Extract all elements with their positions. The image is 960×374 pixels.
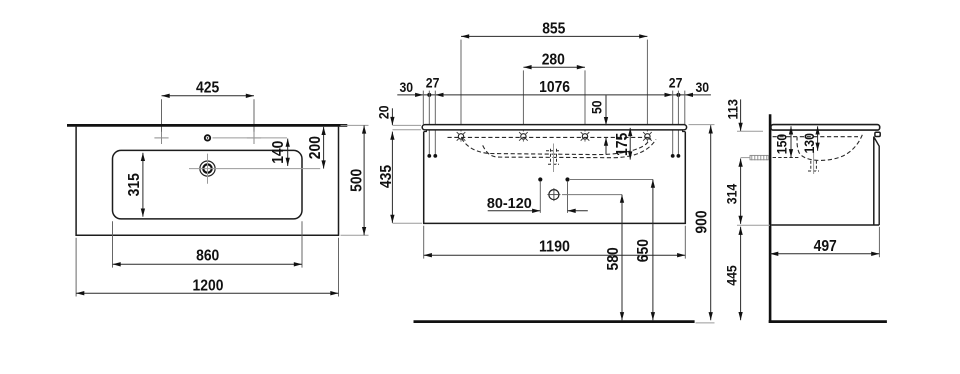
extension 80-120 left <box>539 182 541 213</box>
drawer front top knob (side view) <box>875 132 880 136</box>
drain vertical centre line <box>207 154 209 184</box>
tick 900 top <box>689 124 715 126</box>
svg-text:30: 30 <box>696 80 710 96</box>
svg-text:1200: 1200 <box>193 278 224 295</box>
extension 1200 right <box>338 238 340 297</box>
dot end right a <box>671 154 675 158</box>
extension/centre line tap 4 <box>646 40 648 132</box>
wall line (side view) <box>769 114 772 323</box>
dimension 20 (ceramic thickness) <box>391 108 393 125</box>
left tap hole centre cross <box>154 137 168 139</box>
right tap hole centre cross <box>247 137 261 139</box>
ceramic slab (side view) <box>771 125 880 131</box>
tick ceramic top <box>393 124 422 126</box>
svg-text:900: 900 <box>694 210 711 233</box>
dimension 280 (inner tap holes spacing) <box>523 66 585 68</box>
dimension 80-120 (outlet range) <box>488 210 541 212</box>
dimension 200 (drain from back) <box>323 127 325 169</box>
extension 1200 left <box>75 238 77 297</box>
drain outer circle <box>200 161 215 176</box>
water supply connection right <box>565 177 569 181</box>
extension chain left inner <box>434 91 436 155</box>
hidden drain fitting (front view, dashed) <box>550 149 552 164</box>
floor line (side view) <box>769 320 887 323</box>
extension/centre line tap 1 <box>460 40 462 132</box>
svg-text:314: 314 <box>724 184 740 204</box>
tick cabinet bottom left <box>393 222 423 224</box>
waste pipe stub in wall (hatched) <box>750 155 769 159</box>
connector supply to 650 dim <box>570 179 653 181</box>
svg-text:150: 150 <box>774 134 790 154</box>
hidden bowl profile outer (dashed) <box>483 139 656 157</box>
dimension 900 (top height) <box>710 125 712 320</box>
tick ceramic bottom <box>393 129 422 131</box>
svg-text:315: 315 <box>126 173 143 196</box>
dimension 855 (outer tap holes spacing) <box>461 35 647 37</box>
hidden rim line (side view) <box>773 136 858 138</box>
svg-text:280: 280 <box>542 52 565 69</box>
drain inner circle <box>203 164 211 172</box>
ceramic washbasin slab (front view) <box>422 125 686 130</box>
hidden bowl profile (side view) <box>797 135 862 161</box>
dimension 435 (cabinet height) <box>391 132 393 223</box>
dimension 130 (bowl depth side) <box>817 126 819 151</box>
cabinet side outline <box>771 137 879 226</box>
extension 1190 left <box>423 226 425 259</box>
svg-text:80-120: 80-120 <box>487 195 532 212</box>
extension 80-120 right <box>567 182 569 213</box>
dimension 860 (bowl width) <box>113 263 303 265</box>
tap hole symbol 2 (front view) <box>521 134 526 139</box>
svg-text:50: 50 <box>590 100 606 114</box>
svg-text:425: 425 <box>196 79 219 96</box>
drain centre line (side view) <box>813 152 815 174</box>
svg-text:580: 580 <box>605 247 622 270</box>
hidden waste pipe line <box>773 157 800 159</box>
extension/centre line tap 2 <box>522 70 524 131</box>
dimension 314 (pipe to cabinet bottom) <box>740 159 742 224</box>
svg-text:27: 27 <box>669 76 683 92</box>
centre tap hole <box>205 135 210 140</box>
svg-text:175: 175 <box>614 133 631 156</box>
hidden drain fitting (side view, dashed) <box>810 161 812 171</box>
chain dimension 30-27-1076-27-30 <box>397 94 711 96</box>
svg-text:113: 113 <box>726 99 742 119</box>
dimension 315 (basin length) <box>142 153 144 217</box>
dimension 650 (supply height) <box>652 180 654 321</box>
hidden basin rim line (dashed) <box>448 136 652 138</box>
extension chain right inner <box>672 91 674 155</box>
cabinet top step right <box>683 130 686 132</box>
tick 500 top <box>341 124 369 126</box>
drain centre line (front view) <box>553 144 555 173</box>
tick 113 bottom <box>737 130 763 132</box>
svg-text:445: 445 <box>724 265 740 285</box>
extension 497 right <box>878 227 880 257</box>
svg-text:497: 497 <box>814 238 837 255</box>
cabinet top step left <box>424 130 427 132</box>
tap hole symbol 1 (front view) <box>458 134 463 139</box>
svg-text:650: 650 <box>635 239 652 262</box>
dimension 50 (rim below top) <box>605 95 607 125</box>
dimension 1200 (overall width) <box>76 292 338 294</box>
washbasin outline (top view) <box>76 127 338 236</box>
tick 500 bottom <box>341 234 369 236</box>
tap hole symbol 3 (front view) <box>582 134 587 139</box>
svg-text:200: 200 <box>307 136 324 159</box>
extension 860 left <box>112 221 114 267</box>
extension chain far left <box>422 91 424 125</box>
extension chain left dot line <box>428 91 430 155</box>
svg-text:130: 130 <box>802 133 818 153</box>
extension line left tap centre <box>161 99 163 133</box>
extension chain right dot line <box>677 91 679 155</box>
dimension 500 (overall depth) <box>363 125 365 235</box>
dimension 113 (rim to tap deck) <box>740 99 742 131</box>
svg-text:1190: 1190 <box>539 239 570 256</box>
basin inner bowl outline <box>113 150 303 219</box>
dimension 1190 (cabinet width) <box>424 254 686 256</box>
dimension 497 (cabinet depth) <box>770 253 879 255</box>
dimension 140 (drain offset) <box>287 139 289 166</box>
tick cabinet bottom (side) <box>737 224 770 226</box>
svg-text:860: 860 <box>196 248 219 265</box>
svg-text:140: 140 <box>270 140 287 163</box>
svg-text:435: 435 <box>378 165 395 188</box>
svg-text:1076: 1076 <box>539 79 570 96</box>
dot 27 left <box>427 93 431 97</box>
extension line right tap centre <box>253 99 255 133</box>
extension chain far right <box>684 91 686 125</box>
water supply connection left <box>538 177 542 181</box>
svg-text:30: 30 <box>400 80 414 96</box>
centre line tap holes <box>213 137 288 139</box>
vanity cabinet front outline <box>424 132 686 224</box>
floor line (front view) <box>414 320 695 323</box>
tap hole symbol 4 (front view) <box>645 134 650 139</box>
dimension 150 (drain depth) <box>790 126 792 157</box>
connector siphon to 580 dim <box>562 194 622 196</box>
dot end left a <box>427 154 431 158</box>
dot end left b <box>433 154 437 158</box>
tick 900 bottom <box>696 322 715 324</box>
hidden bowl profile inner (dashed) <box>462 138 651 154</box>
cabinet front edge bevel (side view) <box>874 137 879 225</box>
dimension 425 (tap hole spacing) <box>162 95 255 97</box>
drain horizontal centre line <box>189 168 320 170</box>
dot end right b <box>677 154 681 158</box>
extension 860 right <box>301 221 303 267</box>
dimension 580 (siphon height) <box>621 195 623 321</box>
svg-text:855: 855 <box>542 20 565 37</box>
extension/centre line tap 3 <box>584 70 586 131</box>
svg-text:27: 27 <box>426 76 440 92</box>
extension 1190 right <box>684 226 686 259</box>
svg-text:20: 20 <box>377 105 393 119</box>
siphon outlet symbol <box>549 190 559 200</box>
svg-text:500: 500 <box>348 168 365 191</box>
dimension 445 (cabinet bottom to floor) <box>740 227 742 321</box>
pipe centre tick <box>741 157 750 159</box>
dot 27 right <box>676 93 680 97</box>
washbasin back edge (thick) <box>67 124 347 127</box>
dimension 175 (bowl depth) <box>629 128 631 160</box>
